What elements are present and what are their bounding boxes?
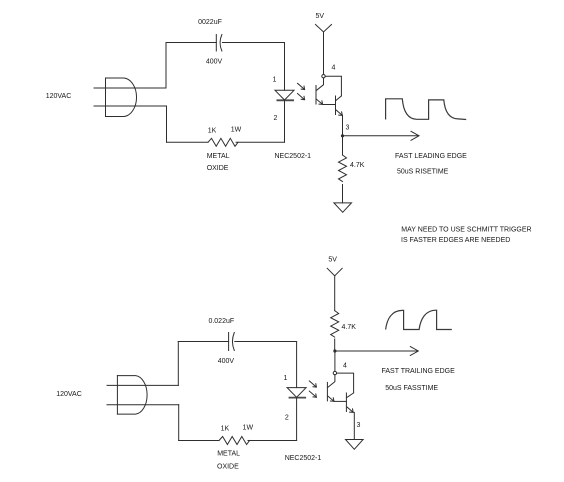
wire: Q2 emitter to node 3 xyxy=(342,115,344,135)
svg-text:2: 2 xyxy=(285,415,289,422)
note: schmitt trigger line 2 xyxy=(401,237,510,244)
svg-text:5V: 5V xyxy=(328,256,337,263)
transistor Q3 (U2 photo-darlington first stage, bottom) xyxy=(327,375,335,402)
plug P2 (120VAC wall plug) xyxy=(117,376,147,415)
wire: plug P2 bottom prong xyxy=(107,404,179,406)
note: schmitt trigger line 1 xyxy=(401,227,531,234)
wire: top loop left vertical (upper) xyxy=(165,43,167,89)
svg-text:NEC2502-1: NEC2502-1 xyxy=(275,153,312,160)
wire: plug top prong xyxy=(94,87,166,89)
svg-text:1: 1 xyxy=(273,77,277,84)
wire: node to pin 4 circle xyxy=(334,351,336,371)
label METAL xyxy=(207,153,230,160)
waveform W1 (fast leading edge pulses) xyxy=(386,99,467,120)
label 400V (C1 rating) xyxy=(206,59,223,66)
label 50uS RISETIME xyxy=(397,169,449,176)
wire: 5V to pin 4 xyxy=(323,32,325,75)
svg-text:3: 3 xyxy=(346,125,350,132)
wire: bottom loop right vertical (anode) xyxy=(296,342,298,388)
wire: LED D2 cathode down xyxy=(296,397,298,440)
svg-text:METAL: METAL xyxy=(217,451,240,458)
pin label 2 (U1 cathode, top) xyxy=(274,115,278,122)
wire: plug bottom prong xyxy=(94,105,167,107)
label OXIDE (bottom) xyxy=(217,463,239,470)
svg-text:NEC2502-1: NEC2502-1 xyxy=(285,455,322,462)
svg-text:1W: 1W xyxy=(231,127,242,134)
pin label 4 (bottom) xyxy=(343,363,347,370)
light arrows U1 (LED to phototransistor) xyxy=(298,83,305,99)
wire: 5V to R4 xyxy=(334,276,336,311)
pin label 4 (top) xyxy=(332,65,336,72)
pin label 1 (U2 anode, bottom) xyxy=(284,375,288,382)
label 400V (C2 rating) xyxy=(218,358,235,365)
node junction dot (bottom collector node) xyxy=(333,349,336,352)
svg-text:OXIDE: OXIDE xyxy=(217,463,239,470)
output arrow (top, fast leading edge) xyxy=(343,131,420,140)
svg-text:0.022uF: 0.022uF xyxy=(208,318,234,325)
wire: collector bus (circle to Q4 collector) xyxy=(337,373,354,393)
5V supply symbol (top) xyxy=(316,25,332,33)
label 1K (R3 value) xyxy=(221,426,230,433)
label 4.7K (top) xyxy=(350,162,365,169)
svg-text:4.7K: 4.7K xyxy=(342,324,357,331)
svg-text:400V: 400V xyxy=(206,59,223,66)
label 1W (R1 power) xyxy=(231,127,242,134)
LED D2 (optocoupler U2 emitter diode) xyxy=(287,388,306,398)
label NEC2502-1 (U1 part number, top) xyxy=(275,153,312,160)
label 5V (bottom supply) xyxy=(328,256,337,263)
svg-text:0022uF: 0022uF xyxy=(198,19,222,26)
LED D1 (optocoupler U1 emitter diode) xyxy=(275,90,294,100)
svg-text:4.7K: 4.7K xyxy=(350,162,365,169)
resistor R2 (4.7K, top) xyxy=(339,155,347,181)
transistor Q1 (U1 photo-darlington first stage, top) xyxy=(316,78,324,105)
svg-text:120VAC: 120VAC xyxy=(56,391,82,398)
wire: top loop bottom side xyxy=(167,141,285,143)
label 1K (R1 value) xyxy=(208,127,217,134)
label FAST LEADING EDGE xyxy=(395,153,467,160)
svg-text:IS FASTER EDGES ARE NEEDED: IS FASTER EDGES ARE NEEDED xyxy=(401,237,510,244)
svg-text:1W: 1W xyxy=(243,425,254,432)
wire: bottom loop left vertical (lower) xyxy=(178,405,180,441)
svg-text:1: 1 xyxy=(284,375,288,382)
svg-text:4: 4 xyxy=(332,65,336,72)
pin 4 terminal circle (top) xyxy=(322,75,325,78)
pin 4 terminal circle (bottom) xyxy=(333,371,336,374)
svg-text:OXIDE: OXIDE xyxy=(207,165,229,172)
svg-text:50uS RISETIME: 50uS RISETIME xyxy=(397,169,449,176)
label 120VAC (bottom) xyxy=(56,391,82,398)
svg-text:FAST TRAILING EDGE: FAST TRAILING EDGE xyxy=(382,368,456,375)
wire: LED cathode down xyxy=(284,100,286,142)
svg-text:2: 2 xyxy=(274,115,278,122)
output arrow (bottom, fast trailing edge) xyxy=(335,347,418,356)
resistor R3 (1K 1W metal oxide) xyxy=(219,437,250,445)
pin label 2 (U2 cathode, bottom) xyxy=(285,415,289,422)
wire: Q1 emitter to Q2 base xyxy=(323,104,336,106)
pin label 3 (top) xyxy=(346,125,350,132)
label 50uS FASSTIME xyxy=(385,385,438,392)
label 0.022uF (C2 value) xyxy=(208,318,234,325)
svg-text:FAST LEADING EDGE: FAST LEADING EDGE xyxy=(395,153,467,160)
svg-text:3: 3 xyxy=(357,422,361,429)
svg-text:4: 4 xyxy=(343,363,347,370)
node 3 junction dot (top) xyxy=(341,134,344,137)
label METAL (bottom) xyxy=(217,451,240,458)
ground GND1 (top) xyxy=(334,203,352,212)
5V supply symbol (bottom) xyxy=(327,268,342,276)
svg-text:400V: 400V xyxy=(218,358,235,365)
wire: top loop left vertical (lower) xyxy=(166,106,168,142)
wire: bottom loop top side xyxy=(178,341,296,343)
plug P1 (120VAC wall plug) xyxy=(106,78,137,117)
wire: collector bus (circle to Q2 collector) xyxy=(325,76,341,96)
waveform W2 (fast trailing edge pulses) xyxy=(386,310,452,329)
capacitor C1 xyxy=(216,35,222,52)
wire: bottom loop left vertical (upper) xyxy=(177,342,179,386)
svg-text:MAY NEED TO USE SCHMITT TRIGGE: MAY NEED TO USE SCHMITT TRIGGER xyxy=(401,227,531,234)
svg-text:METAL: METAL xyxy=(207,153,230,160)
wire: node 3 to R2 xyxy=(342,136,344,155)
capacitor C2 xyxy=(229,333,235,351)
svg-text:120VAC: 120VAC xyxy=(46,93,72,100)
wire: bottom loop bottom side xyxy=(179,440,297,442)
label FAST TRAILING EDGE xyxy=(382,368,456,375)
label 0022uF (C1 value) xyxy=(198,19,222,26)
resistor R1 (1K 1W metal oxide) xyxy=(208,138,238,146)
wire: Q4 emitter (pin 3) to ground xyxy=(353,412,355,439)
wire: Q3 emitter to Q4 base xyxy=(334,400,346,402)
svg-text:1K: 1K xyxy=(208,127,217,134)
svg-text:1K: 1K xyxy=(221,426,230,433)
wire: R2 to ground xyxy=(342,185,344,203)
pin label 1 (U1 anode, top) xyxy=(273,77,277,84)
light arrows U2 (LED to phototransistor) xyxy=(309,381,316,397)
wire: R4 to node xyxy=(334,339,336,351)
ground GND2 (bottom) xyxy=(346,440,364,450)
pin label 3 (bottom) xyxy=(357,422,361,429)
wire: plug P2 top prong xyxy=(107,384,178,386)
label 1W (R3 power) xyxy=(243,425,254,432)
label 5V (top supply) xyxy=(316,13,325,20)
transistor Q2 (U1 darlington second stage, top) xyxy=(336,96,343,116)
resistor R4 (4.7K, bottom) xyxy=(331,311,339,338)
label 4.7K (bottom) xyxy=(342,324,357,331)
label NEC2502-1 (U2 part number, bottom) xyxy=(285,455,322,462)
label OXIDE xyxy=(207,165,229,172)
wire: top loop right vertical (anode) xyxy=(284,43,286,91)
wire: top loop top side xyxy=(166,42,285,44)
svg-text:5V: 5V xyxy=(316,13,325,20)
svg-text:50uS FASSTIME: 50uS FASSTIME xyxy=(385,385,438,392)
label 120VAC (top) xyxy=(46,93,72,100)
transistor Q4 (U2 darlington second stage, bottom) xyxy=(346,393,353,413)
